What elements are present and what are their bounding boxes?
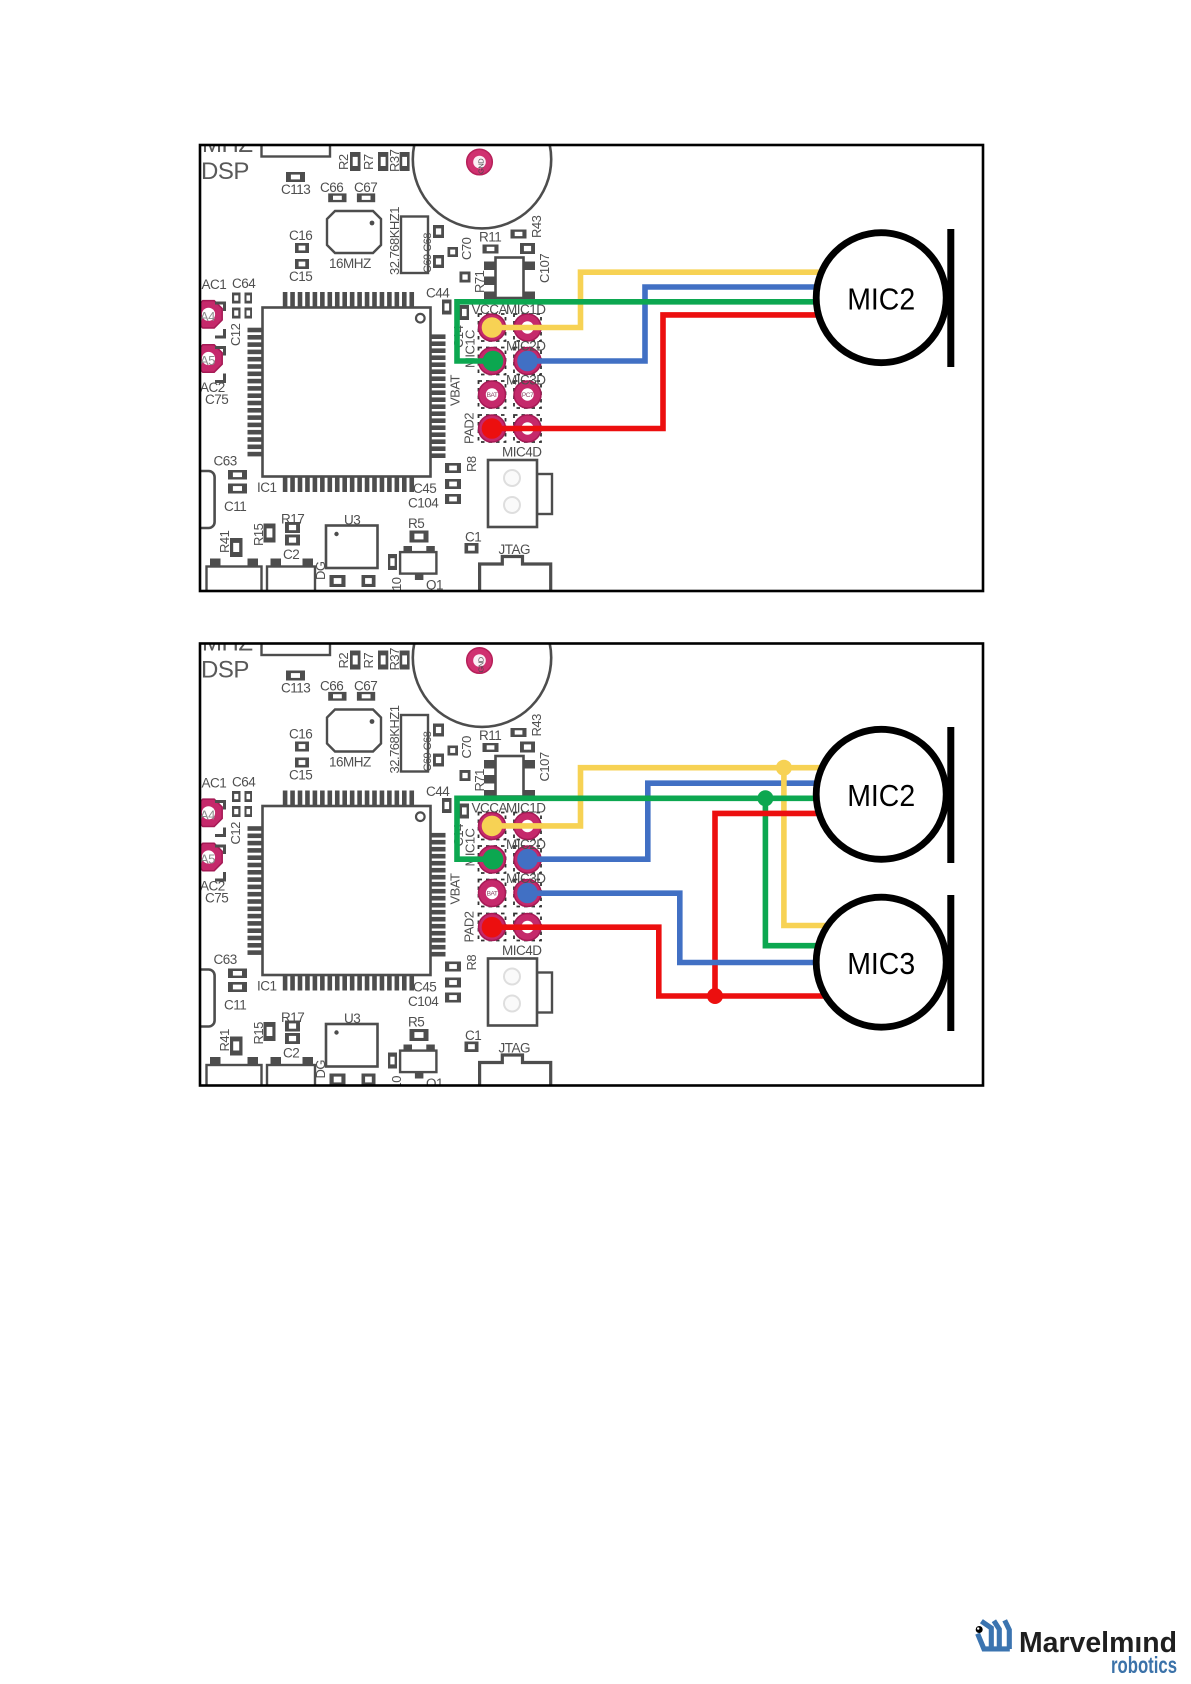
logo eye [976, 1626, 983, 1633]
svg-text:MIC2: MIC2 [847, 778, 915, 813]
wire red branch to MIC2 [715, 813, 890, 996]
wire yellow branch to MIC3 [784, 768, 833, 926]
wire yellow VCCA to MIC2 [492, 272, 890, 327]
panel 2 [190, 589, 983, 1096]
wire green branch to MIC3 [765, 798, 825, 945]
pad dot red [482, 917, 503, 938]
microphone MIC3 [816, 897, 946, 1027]
wire green MIC1C to MIC2 [457, 302, 890, 361]
MIC2 bar [947, 727, 954, 863]
wire blue MIC3D to MIC3 [528, 893, 891, 962]
pad dot blue [517, 351, 538, 372]
panel 1 border [200, 145, 983, 591]
svg-text:MIC3: MIC3 [847, 946, 915, 981]
wire red PAD2 to MIC3 [492, 927, 833, 996]
panel 1 [190, 90, 983, 597]
junction dot red [707, 988, 723, 1004]
pad dot red [482, 418, 503, 439]
wire blue MIC2D to MIC2 [528, 287, 891, 361]
pad dot blue [517, 849, 538, 870]
pad dot green [483, 849, 504, 870]
pad MIC3D blue overlay [517, 883, 538, 904]
MIC3 bar [947, 895, 954, 1031]
MIC2 bar [947, 229, 954, 367]
pad dot yellow [482, 816, 503, 837]
wire yellow VCCA to MIC2 [492, 768, 890, 826]
panel 2 border [200, 644, 983, 1086]
junction dot green [757, 790, 773, 806]
wire red PAD2 to MIC2 [492, 315, 890, 429]
microphone MIC2 [816, 233, 946, 363]
marvelmind logo icon [978, 1620, 1010, 1649]
junction dot yellow [776, 760, 792, 776]
wire green MIC1C to MIC2 [457, 798, 890, 859]
pad dot green [483, 351, 504, 372]
svg-text:MIC2: MIC2 [847, 281, 915, 316]
svg-text:robotics: robotics [1111, 1652, 1177, 1678]
wire blue MIC2D to MIC2 [528, 783, 891, 859]
pad dot yellow [482, 317, 503, 338]
microphone MIC2 [816, 729, 946, 859]
